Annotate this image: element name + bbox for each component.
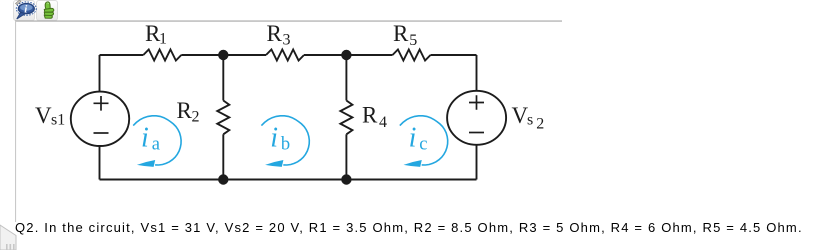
svg-text:V: V [35, 103, 52, 128]
svg-text:5: 5 [409, 32, 417, 49]
label ic [409, 122, 428, 154]
node D (bottom) [341, 174, 351, 184]
svg-text:i: i [409, 122, 417, 153]
pencil artifact top-left [16, 0, 22, 5]
svg-text:i: i [141, 122, 149, 153]
svg-text:s: s [527, 111, 533, 128]
svg-text:2: 2 [536, 116, 544, 133]
wire R3 to node B [304, 54, 346, 56]
wire left side lower [99, 146, 101, 180]
svg-text:3: 3 [283, 31, 291, 48]
wire R4 branch upper [345, 55, 347, 101]
svg-text:s1: s1 [51, 112, 65, 129]
node B (top) [341, 50, 351, 60]
node A (top) [218, 50, 228, 60]
svg-text:b: b [281, 134, 290, 154]
resistor R3 [266, 50, 304, 61]
wire R2 branch lower [222, 134, 224, 179]
resistor R5 [393, 50, 431, 61]
info speech-bubble icon [16, 2, 36, 19]
thumbs-up icon [44, 2, 54, 18]
wire right side upper [476, 55, 478, 91]
svg-text:a: a [152, 134, 160, 154]
resistor R2 [217, 101, 229, 135]
toolbar button 2 (like) [36, 0, 58, 21]
plus/minus of Vs1 [94, 96, 109, 133]
resistor R1 [143, 50, 181, 61]
label R4 [362, 102, 387, 131]
voltage source Vs1 [71, 92, 129, 146]
wire bottom right segment [346, 179, 476, 181]
wire left side upper [99, 55, 101, 92]
svg-text:R: R [177, 98, 193, 123]
wire node B to R5 [346, 54, 392, 56]
wire top-left horizontal [100, 54, 144, 56]
wire R2 branch upper [222, 55, 224, 101]
label ib [270, 122, 290, 154]
label Vs2 [512, 103, 545, 133]
wire node A to R3 [223, 54, 266, 56]
panel top border [15, 21, 562, 22]
page corner flap bottom-left [0, 225, 16, 250]
svg-text:c: c [419, 134, 427, 154]
grip bars bottom-left [6, 244, 15, 250]
wire right side lower [476, 145, 478, 180]
svg-text:1: 1 [159, 31, 167, 48]
svg-text:V: V [512, 103, 529, 128]
mesh current arrow ic [400, 116, 448, 167]
label R2 [177, 98, 200, 126]
panel left border [15, 21, 16, 222]
question text [15, 220, 803, 235]
svg-text:i: i [270, 122, 278, 153]
svg-text:2: 2 [192, 109, 200, 126]
label ia [141, 122, 160, 154]
label Vs1 [35, 103, 65, 129]
svg-text:R: R [393, 21, 409, 46]
mesh current arrow ib [261, 116, 309, 167]
wire bottom middle segment [223, 179, 346, 181]
plus/minus of Vs2 [469, 95, 484, 132]
voltage source Vs2 [447, 91, 506, 145]
wire bottom left segment [100, 179, 224, 181]
wire R4 branch lower [345, 134, 347, 179]
wire R1 to node A [181, 54, 223, 56]
wire R5 to top-right corner [431, 54, 477, 56]
label R1 [145, 21, 167, 48]
svg-text:R: R [362, 102, 378, 127]
node C (bottom) [218, 174, 228, 184]
svg-text:R: R [267, 21, 283, 46]
svg-text:4: 4 [379, 114, 387, 131]
toolbar button 1 (info) [13, 0, 35, 21]
label R5 [393, 21, 417, 49]
resistor R4 [340, 101, 352, 135]
mesh current arrow ia [133, 116, 181, 167]
label R3 [267, 21, 291, 48]
